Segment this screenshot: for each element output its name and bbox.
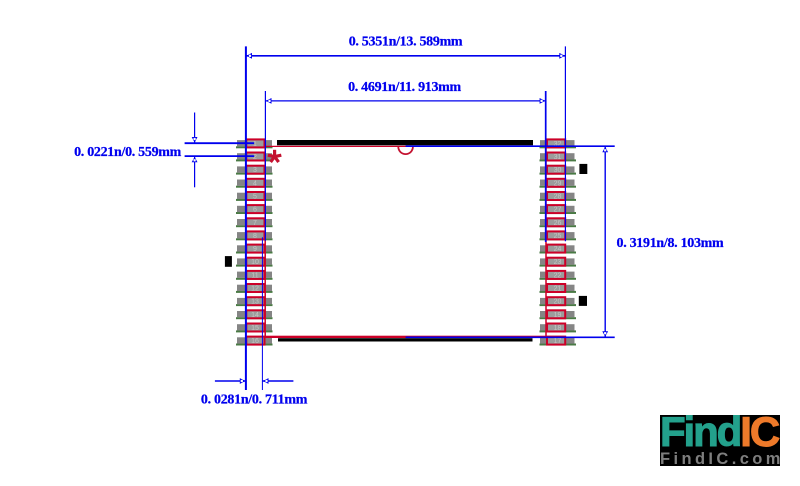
pad 9 — [236, 245, 273, 254]
svg-text:29: 29 — [554, 180, 562, 187]
pad 27 — [540, 205, 577, 214]
svg-text:4: 4 — [253, 180, 257, 187]
svg-text:21: 21 — [554, 286, 562, 293]
svg-text:17: 17 — [554, 338, 562, 345]
pad 17 — [540, 337, 577, 346]
pad 15 — [236, 324, 273, 333]
svg-text:22: 22 — [554, 272, 562, 279]
svg-text:19: 19 — [554, 312, 562, 319]
pad 1 — [236, 139, 273, 148]
FindIC logo — [660, 408, 784, 468]
pad 22 — [540, 271, 577, 280]
pad 2 — [236, 153, 273, 162]
pad 28 — [540, 192, 577, 201]
svg-text:0. 4691n/11. 913mm: 0. 4691n/11. 913mm — [348, 80, 461, 95]
svg-text:16: 16 — [251, 338, 259, 345]
pad 24 — [540, 245, 577, 254]
svg-text:3: 3 — [253, 167, 257, 174]
svg-text:6: 6 — [253, 207, 257, 214]
svg-text:25: 25 — [554, 233, 562, 240]
pad 25 — [540, 231, 577, 240]
marker right upper square — [579, 164, 587, 174]
svg-text:FindIC: FindIC — [660, 408, 780, 455]
svg-text:23: 23 — [554, 259, 562, 266]
svg-text:18: 18 — [554, 325, 562, 332]
pad 14 — [236, 310, 273, 319]
svg-text:30: 30 — [554, 167, 562, 174]
svg-text:FindIC.com: FindIC.com — [660, 450, 784, 468]
dimension pin width 0.0281n/0.711mm — [201, 237, 308, 407]
pad 31 — [540, 153, 577, 162]
svg-text:5: 5 — [253, 194, 257, 201]
pad 10 — [236, 258, 273, 267]
svg-text:0. 0221n/0. 559mm: 0. 0221n/0. 559mm — [74, 145, 182, 160]
pad 23 — [540, 258, 577, 267]
pad 3 — [236, 166, 273, 175]
svg-text:0. 5351n/13. 589mm: 0. 5351n/13. 589mm — [349, 35, 463, 50]
svg-text:15: 15 — [251, 325, 259, 332]
pad 12 — [236, 284, 273, 293]
pad 8 — [236, 231, 273, 240]
pin1 notch semicircle — [398, 147, 413, 154]
marker left square — [225, 256, 232, 267]
svg-text:28: 28 — [554, 194, 562, 201]
svg-text:13: 13 — [251, 299, 259, 306]
svg-text:0. 0281n/0. 711mm: 0. 0281n/0. 711mm — [201, 393, 308, 408]
svg-text:1: 1 — [253, 141, 257, 148]
svg-text:12: 12 — [251, 286, 259, 293]
dimension body height 0.3191n/8.103mm — [406, 146, 724, 337]
pad 18 — [540, 324, 577, 333]
svg-text:7: 7 — [253, 220, 257, 227]
pad 16 — [236, 337, 273, 346]
silkscreen bar top — [277, 140, 533, 145]
pin 1 marker asterisk — [268, 150, 281, 162]
pad 26 — [540, 218, 577, 227]
component body outline U1 — [265, 146, 546, 338]
svg-text:20: 20 — [554, 299, 562, 306]
dimension outer width 0.5351n/13.589mm — [246, 35, 566, 391]
svg-text:24: 24 — [554, 246, 562, 253]
svg-text:26: 26 — [554, 220, 562, 227]
svg-text:27: 27 — [554, 207, 562, 214]
dimension pad pitch 0.0221n/0.559mm — [74, 113, 254, 188]
pad 4 — [236, 179, 273, 188]
silkscreen bar bottom — [278, 338, 533, 341]
pad 13 — [236, 297, 273, 306]
pad 19 — [540, 310, 577, 319]
pad 5 — [236, 192, 273, 201]
pad 7 — [236, 218, 273, 227]
svg-text:14: 14 — [251, 312, 259, 319]
pad 11 — [236, 271, 273, 280]
svg-text:8: 8 — [253, 233, 257, 240]
pad 21 — [540, 284, 577, 293]
dimension inner width 0.4691n/11.913mm — [265, 80, 545, 242]
svg-text:31: 31 — [554, 154, 562, 161]
svg-text:0. 3191n/8. 103mm: 0. 3191n/8. 103mm — [617, 236, 725, 251]
svg-text:10: 10 — [251, 259, 259, 266]
svg-text:11: 11 — [251, 272, 258, 279]
svg-text:9: 9 — [253, 246, 257, 253]
pad 30 — [540, 166, 577, 175]
pad 20 — [540, 297, 577, 306]
pad 29 — [540, 179, 577, 188]
marker right lower square — [579, 296, 587, 306]
svg-text:2: 2 — [253, 154, 257, 161]
pad 6 — [236, 205, 273, 214]
pad 32 — [540, 139, 577, 148]
